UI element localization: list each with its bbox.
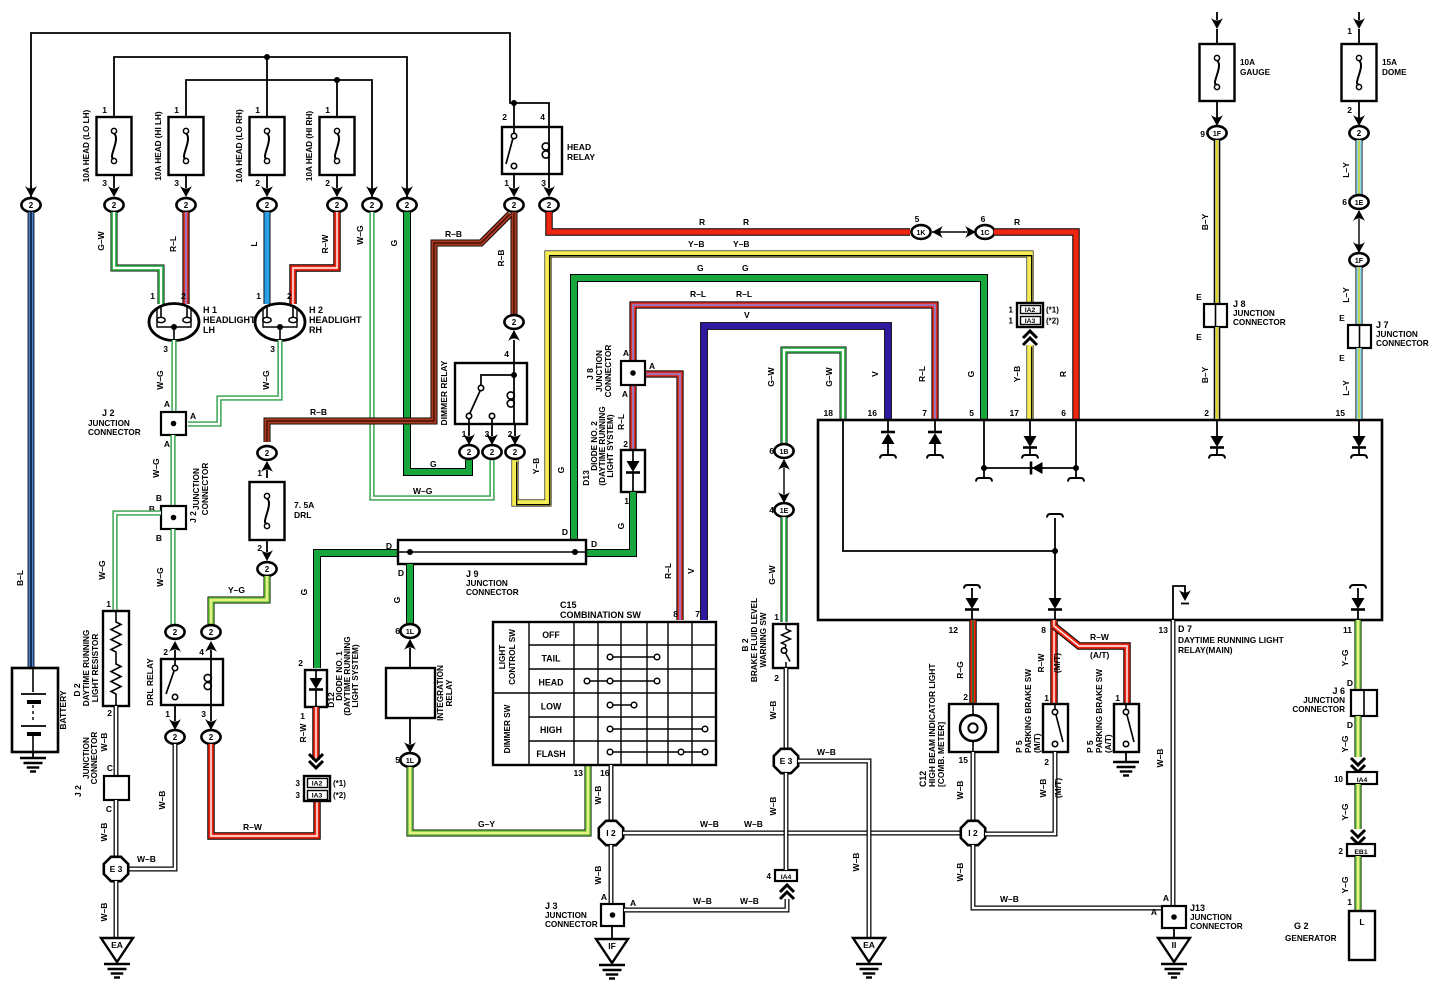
wire L fuse3 to H2 pin1 [264, 212, 271, 304]
svg-text:W–B: W–B [1155, 749, 1165, 768]
svg-text:R–L: R–L [917, 366, 927, 382]
svg-text:1: 1 [165, 709, 170, 719]
svg-text:G: G [556, 466, 566, 473]
svg-text:BATTERY: BATTERY [58, 690, 68, 730]
svg-text:L–Y: L–Y [1341, 287, 1351, 303]
svg-text:OFF: OFF [542, 630, 560, 640]
D7 internal diode at pin16 [880, 420, 896, 459]
svg-text:12: 12 [949, 625, 959, 635]
label Y-G 1 [1340, 649, 1350, 666]
svg-text:G: G [697, 263, 704, 273]
svg-text:A: A [622, 389, 628, 399]
svg-text:R–L: R–L [736, 289, 752, 299]
svg-text:RELAY: RELAY [567, 152, 595, 162]
svg-text:2: 2 [512, 201, 517, 210]
svg-text:1: 1 [1347, 26, 1352, 36]
connector oval 1L (integration relay pin5) [395, 718, 419, 767]
svg-text:HEADLIGHT: HEADLIGHT [203, 315, 256, 325]
wire R-W fuse4 to H2 pin2 [293, 212, 337, 304]
svg-text:DRL RELAY: DRL RELAY [145, 658, 155, 706]
connector oval 1E (dome) [1342, 195, 1368, 221]
label W-B I2b [955, 863, 965, 882]
svg-text:W–G: W–G [261, 370, 271, 390]
wire W-B E3 to EA left [114, 881, 119, 938]
relay D7 DAYTIME RUNNING LIGHT RELAY(MAIN) box [818, 420, 1382, 655]
svg-text:15: 15 [1336, 408, 1346, 418]
svg-text:R–W: R–W [298, 723, 308, 743]
svg-text:LH: LH [203, 325, 215, 335]
switch P5 PARKING BRAKE SW (M/T) [1014, 669, 1068, 767]
connector EB1 [1339, 830, 1375, 856]
svg-text:7. 5A: 7. 5A [294, 500, 314, 510]
wire G D12 to J9 [317, 553, 398, 668]
connector oval 2 (fuse4) [327, 198, 346, 212]
svg-text:Y–B: Y–B [733, 239, 750, 249]
label G-W B2 [767, 564, 777, 584]
connector E3 (left) [104, 857, 128, 881]
svg-text:P 5: P 5 [1014, 740, 1024, 753]
svg-text:2: 2 [173, 733, 178, 742]
connector pair 1K/1C [911, 214, 994, 239]
svg-text:Y–G: Y–G [1340, 649, 1350, 666]
svg-text:2: 2 [107, 708, 112, 718]
svg-text:(*1): (*1) [1046, 306, 1059, 315]
wire W-G J2B down to DRL relay [170, 529, 175, 626]
svg-text:2: 2 [173, 628, 178, 637]
svg-text:DRL: DRL [294, 510, 311, 520]
wire R-G D7 pin12 to C12 [969, 620, 976, 704]
svg-text:D: D [1347, 678, 1353, 688]
wire B-L battery [28, 212, 35, 668]
junction connector J8 (right) [1196, 292, 1286, 342]
label B-Y 1 [1200, 213, 1210, 230]
svg-text:16: 16 [868, 408, 878, 418]
switch C15 COMBINATION SW [493, 600, 716, 778]
svg-text:4: 4 [769, 505, 774, 515]
connector oval 2 (dimmer pin4 top) [504, 315, 523, 363]
svg-text:LIGHT SYSTEM): LIGHT SYSTEM) [351, 644, 360, 707]
svg-text:DAYTIME RUNNING: DAYTIME RUNNING [82, 630, 91, 707]
svg-text:G: G [299, 588, 309, 595]
wire W-B E3 to EA right [798, 761, 869, 938]
svg-text:D: D [398, 568, 404, 578]
connector oval 2 (below DRL fuse) [257, 562, 276, 576]
label Y-B vert [531, 458, 541, 475]
svg-text:2: 2 [257, 543, 262, 553]
svg-text:CONNECTOR: CONNECTOR [1376, 339, 1429, 348]
svg-text:R–B: R–B [445, 229, 462, 239]
svg-text:2: 2 [255, 178, 260, 188]
connector oval 2 (fuse1) [104, 198, 123, 212]
label G pin5 [966, 370, 976, 377]
svg-text:RELAY(MAIN): RELAY(MAIN) [1178, 645, 1233, 655]
svg-text:3: 3 [541, 178, 546, 188]
svg-text:2: 2 [265, 449, 270, 458]
svg-text:CONNECTOR: CONNECTOR [90, 732, 99, 785]
svg-text:C: C [107, 763, 113, 773]
wire R-L bus to D7 pin7 [633, 305, 935, 419]
svg-text:DOME: DOME [1382, 68, 1407, 77]
wire R-W DRL relay pin3 to IA3 [211, 744, 317, 836]
svg-text:G–W: G–W [767, 564, 777, 584]
svg-text:1: 1 [106, 599, 111, 609]
svg-text:R–L: R–L [663, 563, 673, 579]
svg-text:LOW: LOW [541, 702, 562, 712]
svg-text:C: C [106, 804, 112, 814]
label R-W [320, 234, 330, 254]
svg-text:IA4: IA4 [781, 874, 792, 881]
wire L-Y 1F to J7 [1356, 267, 1363, 325]
switch P5 PARKING BRAKE SW (A/T) [1085, 669, 1139, 753]
connector oval 2 (dimmer pin3) [482, 424, 501, 459]
svg-text:JUNCTION: JUNCTION [1376, 330, 1418, 339]
wire B-Y 1F to J8 [1214, 140, 1221, 304]
svg-text:H 2: H 2 [309, 305, 323, 315]
label B-Y 2 [1200, 366, 1210, 383]
svg-text:1: 1 [1009, 317, 1014, 326]
label W-B C12 [955, 781, 965, 800]
label Y-G 2 [1340, 735, 1350, 752]
svg-text:(*2): (*2) [333, 791, 346, 800]
connector oval 2 (DRL relay pin4) [199, 625, 220, 659]
label W-G [355, 225, 365, 245]
svg-text:D: D [1347, 720, 1353, 730]
svg-text:IA3: IA3 [1025, 318, 1036, 325]
svg-text:W–B: W–B [1000, 894, 1019, 904]
label R-L below J8 [616, 414, 626, 430]
svg-text:Y–B: Y–B [688, 239, 705, 249]
wire W-B C12 to I2 [971, 752, 976, 821]
wire L-Y J7 to D7 pin15 [1356, 348, 1363, 419]
svg-text:1: 1 [774, 612, 779, 622]
D7 internal pins 5-6 wiring with diode [976, 420, 1084, 482]
svg-text:R: R [743, 217, 749, 227]
label R-W P5MT [1036, 653, 1046, 673]
svg-text:TAIL: TAIL [542, 654, 562, 664]
connector oval 2 (DRL relay pin1) [165, 705, 184, 744]
wire W-B resistor to J2C [114, 706, 119, 776]
headlight H1 LH [149, 291, 256, 354]
svg-text:INTEGRATION: INTEGRATION [436, 665, 445, 721]
svg-text:2: 2 [547, 201, 552, 210]
junction connector J13 [1151, 893, 1243, 931]
D7 internal diode at pin7 [927, 420, 943, 459]
svg-text:2: 2 [1339, 847, 1344, 856]
relay DRL RELAY [145, 658, 223, 719]
svg-text:(M/T): (M/T) [1052, 653, 1062, 673]
svg-text:6: 6 [1061, 408, 1066, 418]
label L-Y 2 [1341, 287, 1351, 303]
label R pin6 [1058, 371, 1068, 377]
svg-text:W–B: W–B [851, 853, 861, 872]
svg-text:JUNCTION: JUNCTION [595, 350, 604, 392]
label W-B DRL [157, 791, 167, 810]
svg-text:HIGH: HIGH [540, 725, 562, 735]
svg-text:L: L [249, 241, 259, 246]
wire W-G fuse oval to dimmer pin3 [372, 212, 492, 498]
wire W-B P5 MT to I2 [985, 752, 1055, 834]
svg-text:D: D [562, 527, 568, 537]
svg-text:CONTROL SW: CONTROL SW [508, 629, 517, 685]
svg-text:FLASH: FLASH [536, 749, 565, 759]
wire W-B B2 to E3 [784, 668, 789, 749]
relay DIMMER RELAY [439, 360, 527, 439]
label W-B pin13 [1155, 749, 1165, 768]
svg-text:(M/T): (M/T) [1053, 778, 1063, 798]
svg-text:W–G: W–G [155, 567, 165, 587]
svg-text:W–G: W–G [413, 486, 433, 496]
svg-text:2: 2 [1044, 757, 1049, 767]
connector oval 2 (fuse2) [176, 198, 195, 212]
label W-G J2 [151, 458, 161, 478]
svg-text:E: E [1339, 353, 1345, 363]
svg-text:3: 3 [201, 709, 206, 719]
connector IA4 (right) [1334, 758, 1377, 784]
svg-text:(*2): (*2) [1046, 317, 1059, 326]
label W-B P5 [1038, 779, 1048, 798]
label V to C15 [686, 568, 696, 574]
svg-text:1B: 1B [780, 449, 789, 456]
svg-text:18: 18 [824, 408, 834, 418]
label W-B B2 [768, 701, 778, 720]
label R-L pin7 [917, 366, 927, 382]
svg-text:(M/T): (M/T) [1033, 733, 1042, 753]
wire fuse bus row 2 [114, 54, 407, 198]
svg-text:1F: 1F [1213, 131, 1222, 138]
svg-text:10A: 10A [1240, 58, 1255, 67]
svg-text:G: G [389, 239, 399, 246]
connector oval 1F (dome) [1349, 253, 1368, 267]
svg-text:4: 4 [767, 872, 772, 881]
svg-text:JUNCTION: JUNCTION [545, 911, 587, 920]
svg-text:5: 5 [395, 755, 400, 765]
svg-text:10A HEAD (HI RH): 10A HEAD (HI RH) [305, 111, 314, 181]
svg-text:G–W: G–W [96, 230, 106, 250]
label G [389, 239, 399, 246]
connector pair arrow 1E-1F [1353, 219, 1365, 253]
label R-W D12 [298, 723, 308, 743]
wire Y-G DRL fuse to DRL relay pin4 [211, 576, 267, 625]
ground EA (right) [853, 938, 885, 978]
svg-text:R–W: R–W [1036, 653, 1046, 673]
svg-text:W–B: W–B [593, 866, 603, 885]
D7 internal pin11 diode [1350, 585, 1366, 620]
svg-text:3: 3 [270, 344, 275, 354]
svg-text:C15: C15 [560, 600, 577, 610]
svg-text:BRAKE FLUID LEVEL: BRAKE FLUID LEVEL [750, 598, 759, 682]
svg-text:Y–G: Y–G [1340, 735, 1350, 752]
svg-text:2: 2 [184, 201, 189, 210]
svg-text:CONNECTOR: CONNECTOR [201, 463, 210, 516]
svg-text:E 3: E 3 [780, 756, 793, 766]
svg-text:DIMMER SW: DIMMER SW [503, 704, 512, 753]
svg-text:2: 2 [298, 658, 303, 668]
connector I2 (left) [599, 821, 623, 845]
svg-text:6: 6 [1342, 197, 1347, 207]
wire R 1C to D7 pin6 [994, 232, 1076, 419]
svg-text:15A: 15A [1382, 58, 1397, 67]
svg-text:PARKING BRAKE SW: PARKING BRAKE SW [1024, 669, 1033, 753]
svg-text:G–W: G–W [766, 366, 776, 386]
wire G-W 1B to D7 pin18 [784, 350, 843, 445]
svg-text:LIGHT SYSTEM): LIGHT SYSTEM) [606, 414, 615, 477]
svg-text:W–B: W–B [99, 733, 109, 752]
svg-text:(A/T): (A/T) [1104, 734, 1113, 753]
svg-text:6: 6 [981, 214, 986, 224]
lamp C12 HIGH BEAM INDICATOR LIGHT (COMB. METER) [918, 663, 998, 787]
svg-text:J 2: J 2 [188, 511, 198, 523]
svg-text:PARKING BRAKE SW: PARKING BRAKE SW [1095, 669, 1104, 753]
connector oval 1F (gauge) [1200, 126, 1226, 140]
svg-text:W–G: W–G [151, 458, 161, 478]
wire G D13 to J9 [587, 492, 633, 553]
wire R-L J8 through D13 [629, 385, 636, 450]
label R-L to C15 [663, 563, 673, 579]
fuse 10A HEAD (LO RH) [235, 105, 285, 197]
connector oval 2 (battery feed) [21, 186, 40, 212]
label W-G DRL [155, 567, 165, 587]
svg-text:I 2: I 2 [968, 828, 978, 838]
svg-text:V: V [870, 371, 880, 377]
wire W-B D7 pin13 to J13 [1171, 620, 1176, 906]
svg-text:6: 6 [769, 446, 774, 456]
svg-text:R–W: R–W [1090, 632, 1110, 642]
label W-B 16 [593, 786, 603, 805]
svg-text:7: 7 [695, 609, 700, 619]
generator G2 [1285, 911, 1375, 960]
svg-text:2: 2 [335, 201, 340, 210]
svg-text:EA: EA [111, 940, 123, 950]
svg-text:A: A [649, 361, 655, 371]
junction connector J2 (A) [88, 399, 196, 449]
svg-text:2: 2 [1204, 408, 1209, 418]
wire W-G J2B left to resistor [115, 513, 161, 611]
wire Y-G IA4 to EB1 [1355, 784, 1362, 829]
svg-text:EB1: EB1 [1354, 849, 1367, 856]
label R-L [168, 236, 178, 252]
wire G fuse oval to dimmer pin1 [407, 212, 469, 472]
svg-text:2: 2 [265, 201, 270, 210]
label G vert [556, 466, 566, 473]
svg-text:II: II [1172, 940, 1177, 950]
label W-B J3 [593, 866, 603, 885]
label G-W right [824, 366, 834, 386]
svg-text:CONNECTOR: CONNECTOR [604, 345, 613, 398]
svg-text:2: 2 [287, 291, 292, 301]
headlight H2 RH [255, 291, 362, 354]
svg-text:J 6: J 6 [1332, 686, 1345, 696]
label R-B vertical [496, 249, 506, 266]
svg-text:B: B [156, 533, 162, 543]
svg-text:GAUGE: GAUGE [1240, 68, 1271, 77]
svg-text:J 3: J 3 [545, 901, 558, 911]
wire W-B J2C to E3 [114, 800, 119, 857]
svg-text:D: D [591, 539, 597, 549]
svg-text:CONNECTOR: CONNECTOR [88, 428, 141, 437]
wire G-W 1E to B2 [781, 517, 788, 622]
wire fuse bus row 3 [186, 77, 372, 198]
wire R-L J8 branch to combination sw pin8 [645, 374, 680, 620]
svg-text:D 2: D 2 [72, 683, 82, 697]
svg-text:Y–G: Y–G [1340, 803, 1350, 820]
svg-text:R–W: R–W [243, 822, 263, 832]
svg-text:LIGHT RESISTOR: LIGHT RESISTOR [91, 634, 100, 703]
connector oval 1B [769, 444, 793, 470]
D7 internal diode at pin8 [1048, 598, 1062, 620]
connector oval 1L (integration relay pin6) [395, 624, 419, 668]
svg-text:W–B: W–B [99, 823, 109, 842]
svg-text:J 2: J 2 [73, 785, 83, 797]
svg-text:P 5: P 5 [1085, 740, 1095, 753]
svg-text:7: 7 [922, 408, 927, 418]
svg-text:1E: 1E [780, 508, 789, 515]
D7 internal diode at pin15 [1351, 420, 1367, 459]
svg-text:2: 2 [963, 692, 968, 702]
label Y-G 3 [1340, 803, 1350, 820]
svg-text:JUNCTION: JUNCTION [1303, 696, 1345, 705]
svg-text:J 7: J 7 [1376, 320, 1389, 330]
svg-text:2: 2 [181, 291, 186, 301]
svg-text:6: 6 [395, 626, 400, 636]
relay INTEGRATION RELAY [386, 665, 454, 721]
diode D12 DIODE NO.1 (DAYTIME RUNNING LIGHT SYSTEM) [298, 636, 360, 721]
svg-text:2: 2 [1347, 105, 1352, 115]
svg-text:Y–G: Y–G [228, 585, 245, 595]
svg-text:11: 11 [1343, 625, 1352, 635]
svg-text:2: 2 [774, 673, 779, 683]
svg-text:W–B: W–B [1038, 779, 1048, 798]
svg-text:13: 13 [1159, 625, 1169, 635]
svg-text:D13: D13 [581, 470, 591, 486]
svg-text:G–Y: G–Y [478, 819, 495, 829]
svg-text:E 3: E 3 [110, 864, 123, 874]
label W-B left1 [99, 823, 109, 842]
svg-text:RH: RH [309, 325, 322, 335]
junction connector J3 [545, 892, 636, 929]
ground EA (left) [101, 938, 133, 978]
connector oval 1E [769, 503, 793, 517]
fuse 7.5A DRL [250, 482, 315, 561]
wire W-B I2 to J13 [973, 845, 1162, 908]
svg-text:GENERATOR: GENERATOR [1285, 934, 1337, 943]
svg-text:HEADLIGHT: HEADLIGHT [309, 315, 362, 325]
D7 internal diode at pin2 [1209, 420, 1225, 459]
connector E3 (right) [774, 749, 798, 773]
connector IA2/IA3 (left) [296, 754, 347, 801]
svg-text:R–B: R–B [310, 407, 327, 417]
label W-B EA [851, 853, 861, 872]
svg-text:R–L: R–L [616, 414, 626, 430]
svg-text:D: D [386, 541, 392, 551]
wire G bus J9 to D7 pin5 [574, 278, 984, 540]
svg-text:G: G [392, 596, 402, 603]
label W-G H1 [155, 370, 165, 390]
svg-text:1: 1 [1044, 693, 1049, 703]
connector oval 2 (W-G) [362, 186, 381, 212]
svg-text:2: 2 [209, 628, 214, 637]
svg-text:(A/T): (A/T) [1090, 650, 1110, 660]
connector oval 2 (above DRL fuse) [257, 446, 276, 478]
svg-text:16: 16 [600, 768, 610, 778]
svg-text:3: 3 [163, 344, 168, 354]
svg-text:JUNCTION: JUNCTION [1190, 913, 1232, 922]
svg-text:L–Y: L–Y [1341, 380, 1351, 396]
svg-text:8: 8 [1041, 625, 1046, 635]
svg-text:G: G [966, 370, 976, 377]
svg-text:2: 2 [1357, 129, 1362, 138]
D7 internal pin13 wiring [1173, 586, 1191, 620]
connector IA4 (bottom) [767, 870, 797, 899]
